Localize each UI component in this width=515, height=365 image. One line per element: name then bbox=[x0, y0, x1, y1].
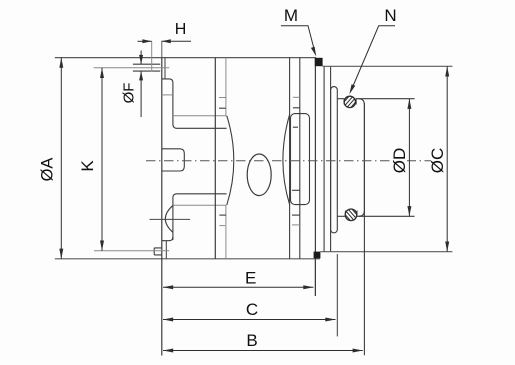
mounting plate left edge bbox=[323, 66, 325, 251]
parting line on top-left block bbox=[162, 94, 173, 96]
tick right 4 bbox=[292, 189, 300, 191]
dimension ØC bbox=[446, 66, 448, 251]
joint line rear cover / gear body bbox=[214, 58, 216, 259]
plate bottom edge / ØC bottom extension bbox=[320, 251, 452, 253]
left gear bore arc bbox=[227, 116, 234, 205]
svg-text:C: C bbox=[246, 300, 258, 319]
dimension H bbox=[138, 40, 152, 42]
leader N bbox=[353, 26, 395, 87]
leader M bbox=[281, 26, 314, 50]
tick right 3 bbox=[293, 126, 298, 128]
O-ring N bottom bbox=[341, 206, 364, 225]
gear body vertical 2 bbox=[299, 58, 301, 259]
H right extension (body edge extended up) bbox=[161, 41, 163, 57]
svg-text:ØD: ØD bbox=[390, 148, 409, 174]
top step profile of rear cover bbox=[162, 79, 227, 128]
svg-text:M: M bbox=[284, 6, 298, 25]
H extension line on stud bbox=[151, 41, 153, 71]
seal M top (black square) bbox=[315, 58, 323, 66]
O-ring groove walls bottom bbox=[344, 211, 346, 217]
O-ring groove walls top bbox=[343, 99, 345, 105]
gear chamber bottom line bbox=[173, 204, 226, 206]
center ellipse (shaft bore) bbox=[247, 154, 271, 196]
flange bottom edge / ØA bottom extension bbox=[55, 258, 320, 260]
gear body vertical 1 bbox=[289, 58, 291, 259]
mounting plate right edge bbox=[330, 66, 332, 251]
svg-text:ØA: ØA bbox=[39, 158, 57, 182]
dimension B bbox=[163, 350, 363, 352]
drain port centerline bbox=[150, 218, 191, 220]
bottom stud box bbox=[154, 248, 162, 255]
tick left upper 2 bbox=[219, 107, 226, 109]
main centerline bbox=[146, 160, 394, 162]
E right extension line bbox=[314, 259, 316, 296]
bolt hidden line upper bbox=[225, 58, 227, 116]
bearing block rounded rect bbox=[291, 114, 310, 205]
right gear bore arc bbox=[283, 114, 290, 205]
collar ring on pilot bbox=[331, 87, 338, 233]
svg-text:K: K bbox=[78, 160, 97, 172]
svg-text:E: E bbox=[245, 268, 256, 287]
O-ring N top bbox=[339, 91, 362, 110]
dimension K line bbox=[101, 68, 103, 251]
tick right 1 bbox=[293, 96, 300, 98]
pilot cylinder top surface left bit bbox=[337, 98, 344, 100]
seal M bottom (black square) bbox=[314, 252, 321, 259]
inner left vertical bottom bbox=[165, 241, 167, 259]
drain port arc bbox=[165, 205, 173, 232]
dimension ØD bbox=[408, 99, 410, 217]
pilot cylinder bottom surface / ØD bottom extension bbox=[357, 215, 415, 217]
lower bore line of rear cover bbox=[173, 194, 227, 240]
C right extension line bbox=[336, 254, 338, 336]
svg-text:B: B bbox=[246, 331, 257, 350]
tick left lower 1 bbox=[219, 214, 226, 216]
tick right 2 bbox=[293, 107, 300, 109]
body top edge / ØA top extension bbox=[55, 57, 316, 59]
tick left lower 2 bbox=[219, 225, 225, 227]
main centerline segment between labels bbox=[407, 160, 431, 162]
dimension C bbox=[163, 319, 336, 321]
svg-text:H: H bbox=[175, 21, 187, 38]
inner left vertical top bbox=[164, 58, 166, 79]
shaft boss (rounded, protruding from left edge) bbox=[162, 149, 185, 171]
bottom stud centerline / K bottom extension bbox=[94, 250, 169, 252]
top stud lower line bbox=[133, 70, 160, 72]
body left edge (extends down as E/C/B extension line) bbox=[161, 58, 163, 356]
bolt hidden line lower bbox=[225, 205, 227, 259]
top stud upper line bbox=[133, 63, 160, 65]
tick right 6 bbox=[292, 224, 300, 226]
tick left upper 1 bbox=[219, 97, 227, 99]
pilot cylinder bottom surface left bit bbox=[337, 215, 345, 217]
svg-text:ØF: ØF bbox=[120, 83, 137, 104]
top stud centerline / K top extension bbox=[94, 67, 170, 69]
body right mounting face (extends down as E extension) bbox=[314, 58, 316, 296]
gear chamber top line bbox=[173, 115, 227, 117]
dimension ØF bbox=[140, 51, 142, 65]
pilot cylinder top surface / ØD top extension bbox=[356, 98, 415, 100]
dimension E bbox=[163, 286, 314, 288]
bottom step line bbox=[162, 237, 173, 241]
pilot right edge with corners (extends down as B extension) bbox=[359, 99, 365, 217]
plate top edge / ØC top extension bbox=[323, 65, 453, 67]
svg-text:ØC: ØC bbox=[428, 148, 447, 174]
svg-text:N: N bbox=[384, 6, 396, 25]
dimension ØA line bbox=[60, 58, 62, 259]
tick right 5 bbox=[292, 214, 300, 216]
